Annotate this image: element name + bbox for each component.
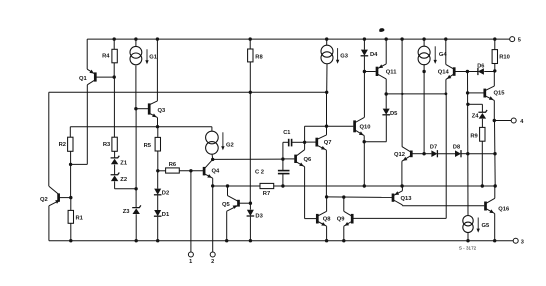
current source G1 bbox=[135, 39, 137, 46]
terminal pin 4 bbox=[511, 118, 516, 123]
svg-text:G5: G5 bbox=[482, 223, 491, 229]
svg-text:D5: D5 bbox=[390, 111, 398, 117]
svg-text:D1: D1 bbox=[162, 212, 170, 218]
node Q5 base / D3 top bbox=[249, 202, 252, 205]
transistor Q14 bbox=[453, 67, 456, 76]
resistor R9 bbox=[480, 127, 485, 141]
node Q3 base bbox=[134, 107, 137, 110]
node rail Q3 collector bbox=[156, 37, 159, 40]
node rail R4 bbox=[113, 37, 116, 40]
node pin 4 junction bbox=[493, 119, 496, 122]
node R8 line on node-A bbox=[249, 91, 252, 94]
current source G2 bbox=[211, 127, 213, 132]
transistor Q7 bbox=[315, 138, 318, 147]
svg-text:Q2: Q2 bbox=[40, 197, 48, 203]
svg-text:R6: R6 bbox=[169, 162, 177, 168]
svg-text:D6: D6 bbox=[477, 63, 484, 69]
node Q12 collector riser crossing bbox=[401, 93, 403, 95]
wire Q7 base-collector loop bbox=[304, 126, 306, 142]
wire Q6 emitter to Q8 base bbox=[305, 218, 317, 220]
wire top supply rail bbox=[87, 38, 510, 40]
wire Q9 base riser bbox=[445, 94, 447, 219]
wire Q12 collector riser bbox=[401, 39, 403, 147]
wire R8 bottom long line down bbox=[249, 62, 251, 203]
wire R4 line down to R3 bbox=[113, 77, 115, 137]
node Q14 base / D6 anode bbox=[466, 70, 469, 73]
resistor R8 bbox=[248, 49, 253, 62]
wire G4 down to Q12 base bbox=[423, 64, 425, 154]
node node-A / G3 / Q7 collector bbox=[325, 91, 328, 94]
node rail G1 bbox=[134, 37, 137, 40]
svg-text:Q8: Q8 bbox=[323, 217, 332, 223]
svg-text:R1: R1 bbox=[76, 216, 84, 222]
node Q9 collector bbox=[342, 195, 345, 198]
node Q5 emitter ground bbox=[225, 239, 228, 242]
svg-text:Q1: Q1 bbox=[79, 76, 88, 82]
current source G3 bbox=[326, 39, 328, 45]
wire D3 to ground bbox=[249, 217, 251, 241]
terminal pin 5 bbox=[510, 37, 515, 42]
transistor Q12 bbox=[410, 151, 413, 158]
wire C network vertical bbox=[282, 142, 284, 159]
ink mark above rail bbox=[379, 28, 384, 32]
svg-text:Z1: Z1 bbox=[120, 160, 128, 166]
svg-text:Z3: Z3 bbox=[123, 209, 131, 215]
svg-text:Q6: Q6 bbox=[304, 157, 313, 163]
wire pin 4 bbox=[494, 120, 511, 122]
svg-text:Z2: Z2 bbox=[120, 177, 127, 183]
zener Z3 bbox=[132, 205, 141, 207]
svg-text:Q9: Q9 bbox=[337, 217, 346, 223]
svg-text:Q16: Q16 bbox=[498, 207, 510, 213]
zener Z4 bbox=[478, 110, 487, 112]
node Q5 collector on output net bbox=[226, 184, 229, 187]
node D8 junction bbox=[466, 152, 469, 155]
svg-text:R7: R7 bbox=[263, 191, 270, 197]
node Z3 ground bbox=[135, 239, 138, 242]
node Q16 emitter ground bbox=[493, 239, 496, 242]
wire D8 node to pin4 line bbox=[468, 153, 495, 155]
terminal pin 3 bbox=[513, 238, 518, 243]
svg-text:Q4: Q4 bbox=[212, 169, 221, 175]
node Z2 join bbox=[134, 187, 137, 190]
svg-text:Z4: Z4 bbox=[472, 114, 480, 120]
node rail Q12 collector bbox=[400, 37, 403, 40]
wire Q3 base line down to Z3 bbox=[135, 109, 137, 208]
diode D7 bbox=[424, 153, 431, 155]
node Q2 base / R1 top bbox=[69, 196, 72, 199]
svg-text:R8: R8 bbox=[255, 55, 263, 61]
node D1 ground bbox=[156, 239, 159, 242]
wire Q4 collector to Q6 base bbox=[213, 158, 283, 160]
resistor R4 bbox=[112, 49, 117, 63]
capacitor C2 bbox=[278, 170, 290, 172]
diode D6 bbox=[467, 71, 478, 73]
resistor R7 bbox=[260, 183, 274, 188]
svg-text:Q5: Q5 bbox=[222, 202, 231, 208]
transistor Q10 bbox=[353, 120, 356, 132]
svg-text:R9: R9 bbox=[470, 134, 478, 140]
node C1 right / Q7 base bbox=[303, 141, 306, 144]
node Q4 collector / G2 bottom bbox=[211, 158, 214, 161]
node Q10 emitter on output net bbox=[363, 184, 366, 187]
wire left frame upper (Q2 collector riser) bbox=[48, 92, 50, 186]
node R1 ground bbox=[69, 239, 72, 242]
resistor R3 bbox=[112, 137, 117, 151]
node Q3 emitter / R5 top on node-B bbox=[156, 125, 159, 128]
transistor Q15 bbox=[483, 89, 486, 98]
node D6 cathode / R10 bottom bbox=[493, 69, 496, 72]
node Q8 collector bbox=[325, 195, 328, 198]
wire Q10 emitter to output net bbox=[363, 142, 365, 186]
transistor Q3 bbox=[148, 103, 151, 114]
transistor Q9 bbox=[351, 214, 354, 224]
wire node-A horizontal (Q2 collector rail) bbox=[49, 91, 327, 93]
node G4 line Q12 base end bbox=[422, 152, 425, 155]
node Q11 emitter wire bbox=[385, 92, 388, 95]
wire Z2 to G1 line bbox=[114, 181, 116, 189]
svg-text:Q14: Q14 bbox=[438, 70, 450, 76]
transistor Q4 bbox=[203, 167, 206, 176]
transistor Q5 bbox=[237, 200, 240, 207]
node C2 bottom on output net bbox=[281, 184, 284, 187]
terminal pin 2 bbox=[210, 252, 215, 257]
transistor Q1 bbox=[94, 72, 97, 81]
svg-text:Q13: Q13 bbox=[401, 196, 413, 202]
wire Q15 emitter down to output net bbox=[494, 121, 497, 187]
node R4 bottom / Q1 base bbox=[113, 75, 116, 78]
svg-text:D7: D7 bbox=[430, 144, 437, 150]
svg-text:G2: G2 bbox=[226, 142, 234, 148]
wire output net horizontal bbox=[213, 185, 260, 187]
resistor R5 bbox=[155, 137, 160, 151]
svg-text:C1: C1 bbox=[283, 130, 290, 136]
node output net right end bbox=[494, 184, 497, 187]
wire Q10 base feed bbox=[327, 125, 354, 127]
node R5 bottom / R6 left bbox=[156, 169, 159, 172]
svg-text:D4: D4 bbox=[370, 52, 378, 58]
wire G1 down to Q3 base bbox=[135, 66, 137, 109]
svg-text:Q12: Q12 bbox=[394, 152, 405, 158]
wire R2 bottom down bbox=[70, 151, 72, 197]
wire R9 to output net bbox=[481, 141, 483, 186]
wire D7-D8 link bbox=[437, 153, 455, 155]
svg-text:D3: D3 bbox=[255, 214, 263, 220]
node G4 line Q14 base bbox=[422, 70, 425, 73]
svg-text:1: 1 bbox=[189, 259, 192, 265]
wire node-B horizontal (R2 top to G2) bbox=[70, 126, 212, 128]
node G5 ground bbox=[466, 239, 469, 242]
transistor Q2 bbox=[57, 193, 60, 201]
svg-text:Q10: Q10 bbox=[360, 124, 371, 130]
node rail Q14 collector bbox=[444, 37, 447, 40]
svg-text:G1: G1 bbox=[149, 54, 158, 60]
svg-text:2: 2 bbox=[211, 259, 214, 265]
resistor R2 bbox=[68, 137, 73, 151]
node Q11 base bbox=[363, 70, 366, 73]
svg-text:G3: G3 bbox=[340, 54, 349, 60]
svg-text:3: 3 bbox=[521, 239, 524, 245]
current source G4 bbox=[423, 39, 425, 46]
svg-text:R10: R10 bbox=[499, 55, 510, 61]
node rail R10 bbox=[493, 37, 496, 40]
wire D8 to vertical bbox=[461, 153, 468, 155]
transistor Q6 bbox=[294, 155, 297, 163]
svg-text:R3: R3 bbox=[103, 142, 111, 148]
transistor Q16 bbox=[484, 202, 487, 211]
node Q4 emitter junction bbox=[211, 184, 214, 187]
resistor R6 bbox=[158, 170, 166, 172]
wire D1 to ground bbox=[157, 217, 159, 241]
node Q12 emitter on output net bbox=[400, 184, 403, 187]
wire Z4 branch bbox=[468, 103, 483, 105]
svg-text:D8: D8 bbox=[453, 144, 460, 150]
current source G5 bbox=[463, 216, 473, 226]
node Z4 branch tap bbox=[466, 103, 469, 106]
wire D4 to Q11 base / Q10 collector bbox=[363, 56, 365, 117]
resistor R10 bbox=[492, 50, 497, 64]
resistor R1 bbox=[68, 210, 73, 223]
node Q9 emitter ground bbox=[342, 239, 345, 242]
node rail D4 bbox=[363, 37, 366, 40]
node Q10 emitter / D5 join bbox=[363, 140, 366, 143]
node rail G4 bbox=[422, 37, 425, 40]
node R2 bottom / Q1 collector bbox=[69, 163, 72, 166]
diode D3 bbox=[249, 203, 251, 209]
svg-text:Q11: Q11 bbox=[386, 70, 397, 76]
svg-text:5: 5 bbox=[518, 38, 521, 44]
transistor Q8 bbox=[316, 214, 319, 224]
transistor Q13 bbox=[392, 194, 395, 202]
svg-text:R2: R2 bbox=[59, 142, 66, 148]
node Q15 base tap bbox=[466, 91, 469, 94]
transistor Q11 bbox=[376, 67, 379, 76]
svg-text:S - 3172: S - 3172 bbox=[459, 246, 477, 251]
wire Q15 base vertical bbox=[467, 72, 469, 154]
wire D5 bottom link bbox=[364, 141, 386, 143]
svg-text:Q15: Q15 bbox=[494, 91, 506, 97]
node D3 ground bbox=[249, 239, 252, 242]
svg-text:Q3: Q3 bbox=[158, 108, 167, 114]
zener Z1 bbox=[114, 151, 116, 158]
diode D8 bbox=[455, 150, 461, 157]
svg-text:R4: R4 bbox=[102, 54, 110, 60]
svg-text:C 2: C 2 bbox=[255, 170, 264, 176]
svg-text:Q7: Q7 bbox=[324, 140, 332, 146]
node rail Q11 bbox=[385, 37, 388, 40]
node rail G3 bbox=[325, 37, 328, 40]
node pin1 riser top bbox=[189, 169, 192, 172]
zener Z2 bbox=[114, 165, 116, 175]
diode D4 bbox=[363, 39, 365, 50]
wire Q13 collector to Q16 base bbox=[402, 205, 484, 207]
node pin4 line D8 tap bbox=[493, 152, 496, 155]
node loop on Q7 collector line bbox=[325, 125, 328, 128]
wire bottom ground rail bbox=[49, 240, 513, 242]
diode D1 bbox=[157, 195, 159, 210]
wire Q8/Q9 collectors to Q13 base bbox=[327, 196, 393, 199]
svg-text:R5: R5 bbox=[144, 143, 152, 149]
node rail R8 bbox=[249, 37, 252, 40]
diode D5 bbox=[385, 94, 387, 109]
node Q6 base / C-network bbox=[281, 157, 284, 160]
node R9 on output net bbox=[481, 184, 484, 187]
wire Q1 collector to R2 bottom bbox=[71, 163, 88, 165]
node Q8 emitter ground bbox=[325, 239, 328, 242]
diode D2 bbox=[157, 171, 159, 189]
capacitor C1 bbox=[283, 141, 288, 143]
wire pin 2 riser bbox=[212, 186, 214, 252]
wire R6 right to Q4 base bbox=[179, 170, 203, 172]
wire pin 1 riser bbox=[190, 171, 192, 252]
svg-text:D2: D2 bbox=[162, 191, 169, 197]
wire Q11 emitter to Q14 emitter bbox=[386, 93, 446, 95]
terminal pin 1 bbox=[188, 252, 193, 257]
